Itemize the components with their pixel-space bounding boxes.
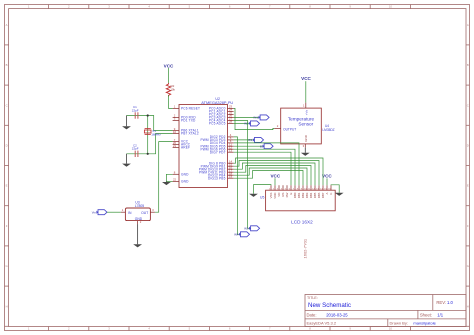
svg-text:IN4: IN4 — [234, 232, 239, 236]
svg-text:22pF: 22pF — [132, 147, 139, 151]
svg-text:VCC: VCC — [270, 173, 280, 178]
svg-text:+Vs: +Vs — [304, 110, 308, 116]
svg-text:19: 19 — [229, 175, 233, 179]
svg-text:22pF: 22pF — [132, 108, 139, 112]
svg-text:mansilpatole: mansilpatole — [413, 321, 436, 326]
svg-text:10: 10 — [389, 327, 393, 331]
svg-text:TITLE:: TITLE: — [307, 296, 318, 300]
svg-text:E: E — [6, 184, 8, 188]
svg-text:21: 21 — [173, 144, 177, 148]
svg-text:REV:: REV: — [436, 300, 446, 305]
svg-text:Drawn By:: Drawn By: — [390, 321, 408, 326]
svg-text:13: 13 — [229, 149, 233, 153]
svg-text:IN1: IN1 — [254, 116, 259, 120]
svg-text:OUT: OUT — [141, 211, 148, 215]
svg-text:A: A — [6, 23, 8, 27]
svg-text:IN: IN — [128, 211, 132, 215]
svg-text:E: E — [260, 144, 262, 148]
svg-text:IN2: IN2 — [244, 122, 249, 126]
svg-text:B: B — [467, 63, 469, 67]
svg-text:IN3: IN3 — [244, 226, 249, 230]
svg-text:C: C — [467, 103, 469, 107]
svg-text:GND: GND — [181, 172, 189, 176]
svg-text:G: G — [6, 264, 8, 268]
svg-text:E: E — [467, 184, 469, 188]
svg-text:H: H — [6, 304, 8, 308]
svg-text:VCC: VCC — [322, 174, 332, 179]
svg-text:L7805: L7805 — [135, 204, 145, 208]
svg-text:1.0: 1.0 — [447, 300, 453, 305]
svg-text:28: 28 — [229, 120, 233, 124]
svg-text:C: C — [6, 103, 8, 107]
svg-text:EasyEDA V5.3.2: EasyEDA V5.3.2 — [307, 321, 337, 326]
svg-text:B: B — [6, 63, 8, 67]
svg-text:1602-7Y01: 1602-7Y01 — [302, 238, 307, 258]
svg-text:VCC: VCC — [164, 63, 174, 68]
svg-text:D: D — [6, 144, 8, 148]
svg-text:DIG7 PD7: DIG7 PD7 — [210, 150, 226, 154]
svg-text:PB7 XTAL2: PB7 XTAL2 — [181, 132, 199, 136]
svg-text:Date:: Date: — [307, 312, 317, 317]
svg-text:GND: GND — [135, 217, 143, 221]
svg-text:Sheet:: Sheet: — [420, 312, 432, 317]
svg-text:LM35DZ: LM35DZ — [322, 128, 334, 132]
svg-text:AREF: AREF — [181, 146, 190, 150]
svg-text:RS: RS — [248, 138, 252, 142]
svg-text:D: D — [467, 144, 469, 148]
svg-text:K: K — [329, 193, 333, 195]
svg-text:10: 10 — [173, 130, 177, 134]
svg-text:GND: GND — [181, 180, 189, 184]
svg-text:22: 22 — [173, 178, 177, 182]
svg-text:2018-03-25: 2018-03-25 — [326, 312, 348, 317]
svg-text:PC5 ADC5: PC5 ADC5 — [209, 122, 226, 126]
svg-text:PC6 RESET: PC6 RESET — [181, 107, 200, 111]
svg-text:DIG13 PB5: DIG13 PB5 — [208, 176, 226, 180]
svg-text:10: 10 — [389, 5, 393, 9]
svg-text:10k: 10k — [170, 88, 175, 92]
svg-text:G: G — [467, 264, 469, 268]
svg-text:F: F — [6, 224, 8, 228]
svg-text:LCD 16X2: LCD 16X2 — [291, 220, 313, 225]
svg-text:F: F — [467, 224, 469, 228]
svg-text:A: A — [467, 23, 469, 27]
svg-text:Sensor: Sensor — [298, 121, 313, 126]
svg-text:GND: GND — [304, 134, 308, 142]
svg-text:1/1: 1/1 — [437, 312, 443, 317]
svg-text:H: H — [467, 304, 469, 308]
svg-text:PD1 TXD: PD1 TXD — [181, 119, 196, 123]
svg-text:OUTPUT: OUTPUT — [283, 127, 296, 131]
svg-text:Vin: Vin — [92, 210, 96, 214]
svg-text:New Schematic: New Schematic — [308, 302, 351, 309]
svg-text:U5: U5 — [260, 196, 264, 200]
svg-text:16MHz: 16MHz — [151, 133, 161, 137]
svg-text:VCC: VCC — [301, 76, 311, 81]
